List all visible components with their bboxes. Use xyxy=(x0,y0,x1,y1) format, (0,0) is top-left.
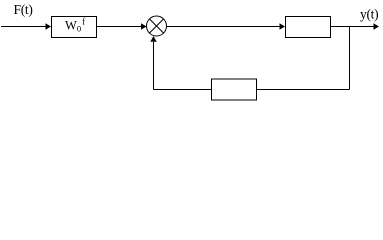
summing junction (circle with X) xyxy=(147,16,167,36)
svg-text:y(t): y(t) xyxy=(360,7,378,22)
node F(t) input label xyxy=(14,2,33,17)
block W1: forward block W0^f xyxy=(52,17,97,38)
svg-text:F(t): F(t) xyxy=(14,2,33,17)
wire input arrow into W0f xyxy=(1,23,51,29)
wire from summing junction to plant block xyxy=(167,23,286,29)
block W2: plant block (unlabeled) xyxy=(286,17,331,38)
block W3: feedback block (unlabeled) xyxy=(212,79,257,100)
wire feedback vertical up into summing junction xyxy=(150,36,156,90)
wire output with arrow xyxy=(331,23,380,29)
wire from W0f to summing junction xyxy=(97,23,147,29)
node y(t) output label xyxy=(360,7,378,22)
wire feedback bottom horizontal xyxy=(154,89,350,91)
wire feedback takeoff vertical xyxy=(349,27,351,90)
